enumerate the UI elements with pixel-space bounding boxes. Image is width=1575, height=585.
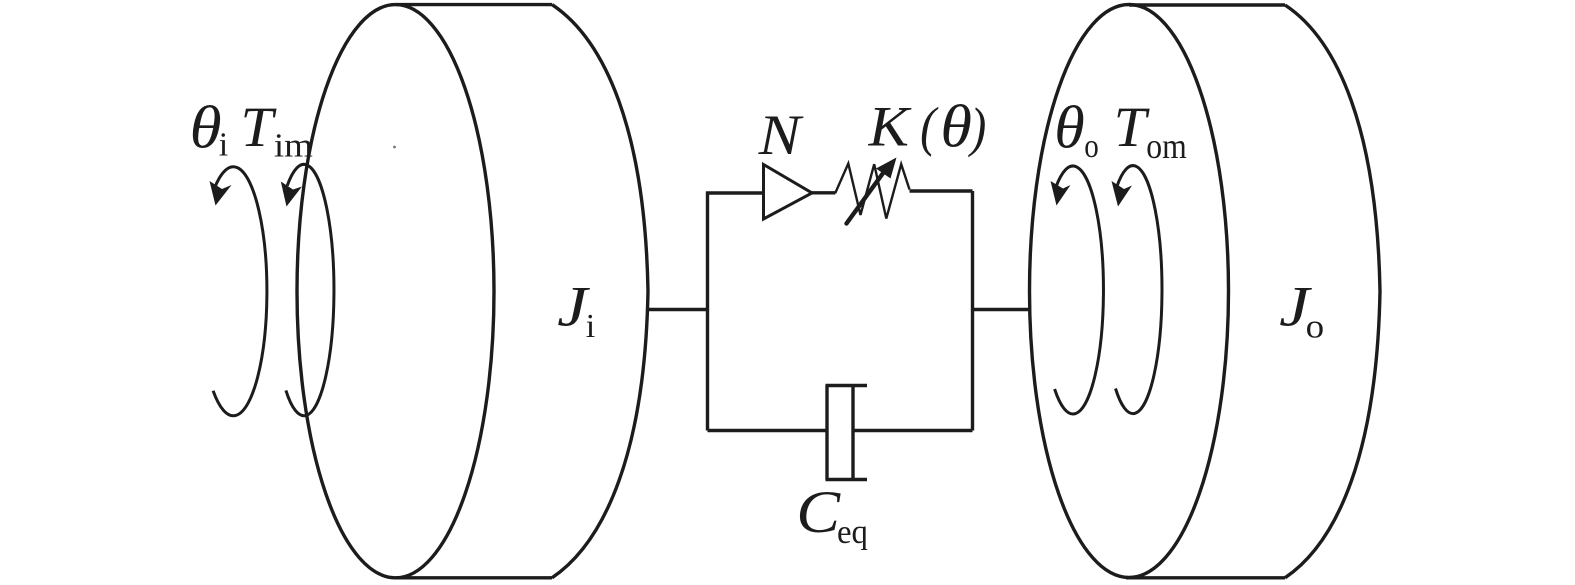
svg-text:o: o — [1306, 309, 1325, 346]
rotation arrow arc theta_i — [213, 167, 267, 416]
wire box bottom — [708, 429, 973, 432]
flywheel J_i body top edge — [396, 3, 552, 6]
svg-text:om: om — [1146, 126, 1187, 166]
flywheel J_o body top edge — [1129, 3, 1285, 6]
wire from amplifier to spring — [810, 191, 836, 194]
svg-text:): ) — [968, 97, 987, 158]
wire from spring to box top-right corner — [910, 189, 973, 192]
flywheel J_o body right rim — [1285, 5, 1380, 578]
svg-text:im: im — [274, 127, 313, 164]
stray dot artifact — [393, 146, 396, 149]
flywheel J_i body bottom edge — [396, 576, 552, 579]
svg-text:C: C — [796, 479, 841, 545]
svg-text:o: o — [1084, 128, 1099, 165]
flywheel J_o front face ellipse — [1030, 5, 1229, 578]
wire box left side — [706, 192, 709, 431]
svg-text:T: T — [1114, 96, 1151, 159]
svg-text:K: K — [868, 96, 913, 159]
variable spring K(theta) zigzag — [835, 164, 909, 219]
svg-text:eq: eq — [837, 514, 868, 551]
arrowhead theta_o — [1051, 181, 1071, 206]
svg-text:i: i — [586, 308, 595, 345]
variable stiffness arrow shaft — [847, 169, 887, 224]
svg-text:i: i — [219, 126, 228, 163]
damper C_eq top cap — [826, 384, 868, 387]
flywheel J_i front face ellipse — [297, 5, 494, 578]
flywheel J_o body bottom edge — [1126, 576, 1285, 579]
variable stiffness arrow head — [876, 158, 897, 179]
flywheel J_i body right rim — [552, 5, 648, 578]
svg-text:T: T — [241, 96, 278, 159]
arrowhead theta_i — [210, 181, 232, 206]
svg-text:θ: θ — [1054, 95, 1085, 161]
wire shaft from J_i to transmission box — [648, 308, 708, 311]
amplifier gear ratio N — [764, 165, 813, 220]
damper C_eq bottom cap — [826, 478, 868, 481]
rotation arrow arc theta_o — [1055, 166, 1104, 414]
svg-text:θ: θ — [940, 94, 972, 160]
damper C_eq body mask — [829, 386, 852, 479]
svg-text:N: N — [757, 104, 803, 167]
wire box right side — [971, 191, 974, 431]
rotation arrow arc T_im — [286, 164, 334, 415]
arrowhead T_om — [1112, 181, 1133, 207]
damper C_eq left wall — [825, 385, 828, 480]
arrowhead T_im — [281, 182, 302, 207]
wire box top-left segment — [706, 191, 764, 194]
damper C_eq right wall — [851, 385, 854, 480]
wire shaft from transmission box to J_o — [973, 308, 1031, 311]
svg-text:θ: θ — [190, 95, 222, 161]
rotation arrow arc T_om — [1116, 166, 1162, 414]
svg-text:(: ( — [920, 96, 939, 157]
